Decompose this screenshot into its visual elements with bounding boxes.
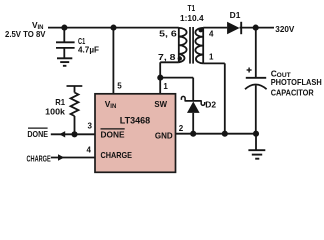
svg-text:GND: GND (155, 131, 173, 140)
svg-text:5, 6: 5, 6 (159, 30, 177, 39)
svg-text:LT3468: LT3468 (120, 115, 150, 125)
svg-text:5: 5 (117, 82, 122, 91)
svg-text:4: 4 (209, 29, 214, 38)
svg-text:2: 2 (179, 124, 184, 133)
svg-text:1: 1 (209, 52, 214, 61)
svg-text:3: 3 (88, 122, 93, 131)
svg-text:R1: R1 (55, 98, 65, 107)
svg-text:1: 1 (163, 82, 168, 91)
svg-text:CHARGE: CHARGE (101, 151, 133, 160)
svg-text:DONE: DONE (27, 130, 48, 139)
svg-text:PHOTOFLASH: PHOTOFLASH (271, 78, 322, 87)
svg-text:4.7µF: 4.7µF (78, 45, 99, 54)
svg-text:CHARGE: CHARGE (27, 154, 52, 163)
svg-text:D2: D2 (205, 100, 216, 109)
svg-text:T1: T1 (188, 4, 196, 13)
svg-text:DONE: DONE (101, 131, 126, 140)
svg-text:7, 8: 7, 8 (158, 53, 176, 62)
svg-text:CAPACITOR: CAPACITOR (271, 88, 314, 97)
svg-text:4: 4 (87, 145, 92, 154)
svg-text:SW: SW (154, 100, 167, 109)
svg-text:D1: D1 (230, 11, 241, 20)
svg-text:IN: IN (110, 104, 116, 110)
svg-text:2.5V TO 8V: 2.5V TO 8V (5, 30, 46, 39)
svg-text:1:10.4: 1:10.4 (180, 14, 204, 23)
svg-text:100k: 100k (45, 108, 65, 117)
svg-text:320V: 320V (275, 25, 295, 34)
